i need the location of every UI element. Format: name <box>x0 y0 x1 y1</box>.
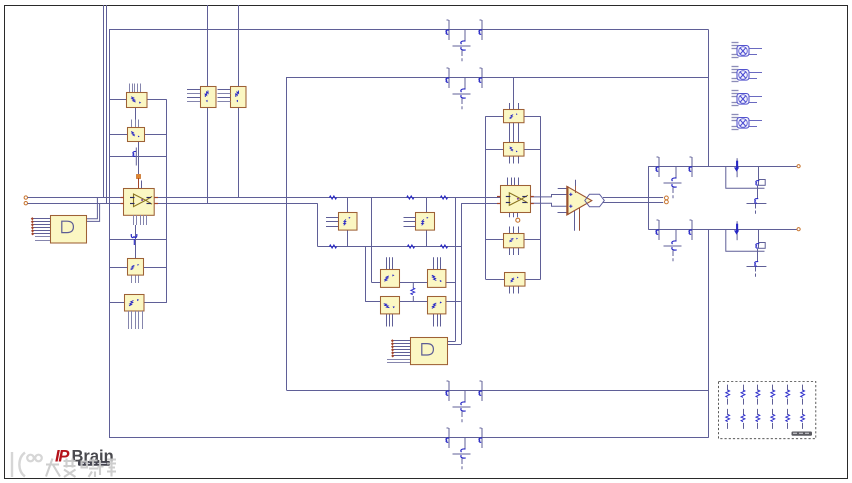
transistor Q28 bold inline <box>734 221 739 240</box>
transistor Q21 inline <box>689 157 692 177</box>
pin rake L6 bottom <box>131 276 133 284</box>
wire T1 right <box>524 116 541 118</box>
wire T3 right <box>524 239 541 241</box>
block T1 <box>504 110 525 123</box>
watermark characters <box>46 459 116 478</box>
wire right block left bus <box>648 166 650 229</box>
node IN2 pin circle <box>24 202 27 205</box>
wire opamp aux input <box>558 188 568 190</box>
wire U3 to opamp upper <box>530 195 566 197</box>
mixer X4 <box>732 115 763 130</box>
transistor Q19 inline bottom rail <box>446 428 449 448</box>
resistor RB1 bank top <box>727 385 729 391</box>
transistor Q26 inline <box>689 220 692 240</box>
pin stubs T3 bottom <box>509 248 511 256</box>
resistor RB7 bank bottom <box>727 409 729 415</box>
pin rake U4 lower <box>387 359 410 361</box>
wire T2 right <box>524 149 541 151</box>
node OUTP pin circle <box>665 196 669 200</box>
wire left column right bus <box>166 100 168 303</box>
transistor Q12 hanging top rail <box>453 30 471 62</box>
block L2 <box>128 128 145 142</box>
wire U3 to opamp lower <box>530 203 566 206</box>
wire net OUTP <box>603 197 663 199</box>
wire net lower bus <box>317 246 461 248</box>
node IN1 pin circle <box>24 196 27 199</box>
wire opamp below stub B <box>579 208 581 231</box>
pin rake M1a <box>326 217 338 219</box>
wire row N gate loop <box>726 229 765 251</box>
block MD <box>428 297 446 314</box>
transistor Q27 hanging <box>664 230 682 262</box>
wire left stub L7 <box>109 302 125 304</box>
pin stubs T2 bottom <box>509 156 511 164</box>
wire U5 output down <box>207 107 209 203</box>
mixer X2 <box>732 67 763 82</box>
wire net IN2 drop <box>317 203 319 246</box>
pin stub U3 left B <box>497 203 500 205</box>
resistor R3 inline <box>440 196 447 199</box>
transistor Q18 hanging rect2 bottom <box>453 391 471 423</box>
power square P1 <box>137 175 141 179</box>
transistor Q24 cascode pair <box>747 166 767 214</box>
wire inner loop rect2 left <box>286 77 288 390</box>
wire T1 top pin to rect2 <box>513 77 515 110</box>
block MB <box>428 270 446 288</box>
wire left column center bus lower <box>135 225 137 259</box>
pin stubs U3 bottom <box>509 212 511 217</box>
wire top feed A <box>103 5 105 198</box>
resistor RB10 bank bottom <box>772 409 774 415</box>
node OUTN pin circle <box>665 200 669 204</box>
mixer X3 <box>732 91 763 106</box>
transistor Q3 inline <box>133 148 136 166</box>
transistor Q10 inline top rail <box>446 20 449 40</box>
pin stubs T3 top <box>509 227 511 234</box>
resistor RB8 bank bottom <box>743 409 745 415</box>
op-amp U7 <box>567 186 592 215</box>
resistor R6 inline <box>440 245 447 248</box>
transistor Q20 inline <box>656 157 659 177</box>
pin rake U5 <box>187 89 200 91</box>
node OUTP terminal circle <box>797 165 800 168</box>
wire U4 out A <box>447 341 456 343</box>
pin stubs boxC bottom <box>386 314 388 327</box>
resistor bank unused group <box>719 382 816 439</box>
transistor Q14 inline rect2 top <box>479 68 482 88</box>
block U6 <box>231 87 247 108</box>
block U2 buffer <box>124 189 155 216</box>
pin rake U1 lower <box>35 236 50 238</box>
pin stub U2 left B <box>121 203 124 205</box>
wire inner loop rect2 top <box>287 77 709 79</box>
watermark mark <box>12 452 42 477</box>
pin rake L2 top <box>131 120 133 128</box>
wire net OUTN <box>603 202 663 204</box>
wire T3 left <box>486 239 504 241</box>
pin P1 to U2 <box>138 178 140 188</box>
pin rake U2 bottom <box>133 215 135 225</box>
wire OUTP row <box>648 166 797 168</box>
pin stub U2 right A <box>155 197 159 199</box>
resistor R4 inline <box>329 245 336 248</box>
block T4 <box>505 273 526 287</box>
pin stubs boxD bottom <box>433 314 435 327</box>
block MA <box>381 270 400 288</box>
wire top feed to U6 <box>238 5 240 86</box>
wire opamp top stub <box>575 180 577 186</box>
pin stub U2 right B <box>155 203 159 205</box>
pin rake L1 top <box>129 84 131 93</box>
wire outer loop rect1 right upper <box>708 30 710 167</box>
wire U4 out B <box>447 344 461 346</box>
resistor RB3 bank top <box>757 385 759 391</box>
wire opamp aux output-left <box>558 212 568 214</box>
block M1a <box>339 213 358 231</box>
resistor R1 inline <box>329 196 336 199</box>
wire right stub L6 <box>143 267 167 269</box>
wire OUTN row <box>648 229 797 231</box>
pin stubs boxB top <box>433 257 435 269</box>
wire net IN2 <box>28 203 318 205</box>
block MC <box>381 297 400 314</box>
block L1 <box>127 93 148 108</box>
pin rake M1b <box>404 217 416 219</box>
pin stub U3 left A <box>497 196 500 198</box>
wire row P gate loop <box>726 166 765 188</box>
wire outer loop rect1 right lower <box>708 229 710 438</box>
wire outer loop rect1 top <box>109 29 709 31</box>
wire T4 right <box>525 279 541 281</box>
transistor Q25 inline <box>656 220 659 240</box>
block M1b <box>416 213 435 231</box>
wire U1 out B <box>86 203 100 221</box>
wire T2 left <box>486 149 504 151</box>
wire right stub L7 <box>144 302 167 304</box>
wire net IN1 <box>28 197 501 199</box>
wire drop to M row <box>371 198 373 283</box>
transistor Q17 inline rect2 bottom <box>479 381 482 401</box>
resistor RB11 bank bottom <box>787 409 789 415</box>
pin stubs U3 top <box>507 178 509 186</box>
wire left stub L6 <box>109 267 127 269</box>
bank tiny label <box>792 432 813 436</box>
wire row Q4 <box>109 239 167 241</box>
wire opamp below stub A <box>574 211 576 231</box>
wire M1b top pin <box>426 198 428 213</box>
logo IPBrain <box>55 448 114 466</box>
pin stubs T1-T2 <box>509 123 511 142</box>
wire left column center bus mid <box>138 141 140 174</box>
wire left stub L1 <box>109 99 126 101</box>
wire left column center bus upper <box>135 107 137 127</box>
wire left stub L2 <box>109 134 127 136</box>
block U5 <box>201 87 217 108</box>
pin rake L7 bottom <box>128 311 130 329</box>
resistor RB2 bank top <box>743 385 745 391</box>
wire row Q3 <box>109 156 167 158</box>
wire mid column right bus <box>540 116 542 279</box>
block U3 buffer <box>501 186 531 213</box>
pin stub U2 left A <box>121 197 124 199</box>
transistor Q13 inline rect2 top <box>446 68 449 88</box>
wire top feed B <box>106 5 108 203</box>
wire outer loop rect1 bottom <box>109 437 709 439</box>
transistor Q22 hanging <box>664 167 682 199</box>
power node ring below U3 <box>516 218 520 222</box>
pin rake U6 <box>218 89 231 91</box>
resistor RB12 bank bottom <box>802 409 804 415</box>
pin stubs T1 top sides <box>509 103 511 110</box>
pin rake U4 <box>393 340 410 342</box>
gate X5 merge symbol <box>585 194 605 207</box>
block U4 driver <box>411 338 448 365</box>
transistor Q4 inline <box>131 234 137 245</box>
node OUTN terminal circle <box>797 228 800 231</box>
resistor RB4 bank top <box>772 385 774 391</box>
wire right stub L1 <box>147 99 167 101</box>
wire M1a bottom pin <box>347 230 349 246</box>
pin stubs boxA top <box>386 257 388 269</box>
wire inner loop rect2 bottom <box>287 390 709 392</box>
block T3 <box>504 234 525 248</box>
resistor RB5 bank top <box>787 385 789 391</box>
resistor RB9 bank bottom <box>757 409 759 415</box>
wire right stub L2 <box>144 134 167 136</box>
pin stub U3 right B <box>530 203 533 205</box>
transistor Q20 inline bottom rail <box>479 428 482 448</box>
pin stub U3 right A <box>530 196 533 198</box>
wire outer loop rect1 left <box>109 30 111 438</box>
mixer X1 <box>732 43 763 58</box>
wire net IN2 right segment <box>461 203 500 205</box>
transistor Q29 cascode pair <box>747 229 767 277</box>
wire U6 output down <box>238 107 240 198</box>
block T2 <box>504 143 525 157</box>
pin stubs T4 bottom <box>509 287 511 294</box>
resistor R2 inline <box>407 196 414 199</box>
transistor Q16 inline rect2 bottom <box>446 381 449 401</box>
block L6 <box>128 259 144 276</box>
wire U1 out A <box>86 198 97 219</box>
transistor Q21 hanging bottom rail <box>453 438 471 470</box>
transistor Q23 bold inline <box>734 158 739 177</box>
svg-text:IP: IP <box>55 448 70 466</box>
block L7 <box>125 295 145 312</box>
resistor R7 vertical <box>411 282 415 301</box>
pin rake U1 <box>33 218 50 220</box>
wire drop to M row lower <box>365 246 367 302</box>
wire M1a top pin <box>347 198 349 213</box>
wire mid column left bus <box>485 116 487 279</box>
wire M1b bottom pin <box>426 230 428 246</box>
transistor Q15 hanging rect2 top <box>453 78 471 110</box>
wire net AB <box>371 282 455 284</box>
block U1 driver <box>51 216 87 244</box>
wire T4 left <box>486 279 505 281</box>
wire T1 left <box>486 116 504 118</box>
wire drop to U4 pinB <box>461 203 463 344</box>
transistor Q11 inline top rail <box>479 20 482 40</box>
wire net CD <box>365 301 461 303</box>
wire drop to U4 pinA <box>455 198 457 341</box>
resistor RB6 bank top <box>802 385 804 391</box>
wire top feed to U5 <box>207 5 209 86</box>
resistor R5 inline <box>407 245 414 248</box>
pin stub U2 top <box>141 181 143 189</box>
